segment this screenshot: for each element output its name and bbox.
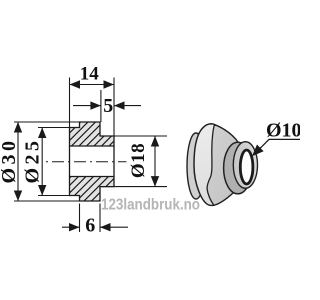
svg-text:Ø18: Ø18: [128, 143, 149, 178]
dim 6 extension left: [79, 204, 81, 233]
3d flange rim: [194, 124, 240, 206]
section upper half hatched area: [70, 122, 115, 146]
dim 14 extension right: [113, 78, 115, 137]
dim 6 right arrow: [100, 226, 128, 228]
3d hub back: [224, 142, 252, 194]
svg-text:Ø30: Ø30: [0, 137, 20, 183]
wire right face edge across bore: [113, 146, 115, 177]
dim O25 line: [41, 128, 43, 196]
dim 5 right arrow: [114, 105, 141, 107]
wire left face edge across bore: [69, 146, 71, 177]
centerline: [46, 161, 127, 163]
dim O18 extension bottom: [100, 186, 167, 188]
section lower half hatched area: [70, 177, 115, 202]
svg-text:123landbruk.no: 123landbruk.no: [101, 197, 200, 214]
dim O25 extension top: [38, 127, 70, 129]
3d flange face: [207, 125, 240, 206]
dim 14 line: [70, 84, 115, 86]
3d stub: [187, 133, 205, 199]
dim 5 extension: [100, 90, 102, 122]
dim O25 extension bottom: [38, 195, 70, 197]
dim O18 line: [154, 136, 156, 187]
dim O30 extension top: [14, 121, 80, 123]
3d bore: [240, 150, 253, 184]
svg-text:Ø10: Ø10: [266, 120, 300, 142]
svg-text:Ø25: Ø25: [21, 137, 43, 183]
dim O18 extension top: [100, 135, 167, 137]
dim 14 extension left: [69, 78, 71, 128]
svg-text:14: 14: [80, 63, 100, 84]
svg-text:6: 6: [85, 215, 95, 237]
svg-text:5: 5: [103, 95, 113, 117]
dim 5 left arrow: [73, 105, 101, 107]
dim 6 extension right: [99, 204, 101, 233]
dim O30 extension bottom: [14, 200, 80, 202]
3d hub face: [233, 142, 257, 189]
dim 6 left arrow: [62, 226, 80, 228]
dim O30 line: [17, 122, 19, 201]
leader O10: [255, 139, 300, 153]
